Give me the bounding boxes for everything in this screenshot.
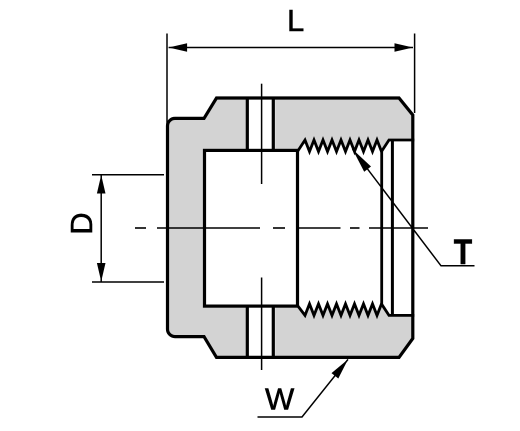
vertical centerline top [261, 84, 263, 184]
dimension L: extension line right [414, 34, 416, 114]
svg-text:D: D [64, 212, 99, 234]
dimension D: extension line bottom [92, 281, 164, 283]
hex corner line top-right [272, 97, 275, 151]
svg-text:T: T [454, 232, 472, 272]
leader T: line [353, 149, 475, 266]
hex corner line bottom-left [246, 305, 249, 359]
cap body: gray section fill [168, 98, 413, 357]
leader W: line [258, 359, 349, 417]
horizontal centerline dash-dot [135, 227, 428, 229]
hex corner line top-left [246, 97, 249, 151]
thread end chamfer line [391, 140, 394, 315]
threaded bore: white fill [298, 140, 415, 315]
counterbore cavity: white fill [203, 149, 299, 308]
dimension D: arrowhead top [97, 175, 106, 194]
dimension D: dimension line [100, 175, 102, 282]
leader W: arrowhead [332, 359, 349, 378]
dimension D: extension line top [92, 174, 164, 176]
thread end crest line [380, 152, 383, 304]
hex corner line bottom-right [272, 305, 275, 359]
thread profile top [298, 140, 415, 152]
leader T: arrowhead [353, 149, 372, 172]
hex corner break band bottom: white fill [246, 305, 276, 360]
hex corner break band top: white fill [246, 97, 276, 151]
svg-text:W: W [265, 382, 295, 417]
dimension L: extension line left [166, 34, 168, 127]
cavity outline [205, 150, 298, 306]
dimension L: dimension line [169, 47, 413, 49]
svg-text:L: L [287, 3, 304, 38]
dimension L: arrowhead left [169, 43, 188, 52]
cap body: outline stroke [168, 98, 413, 357]
dimension D: arrowhead bottom [97, 263, 106, 282]
vertical centerline bottom [261, 278, 263, 371]
thread profile bottom [298, 304, 415, 316]
dimension L: arrowhead right [395, 43, 414, 52]
